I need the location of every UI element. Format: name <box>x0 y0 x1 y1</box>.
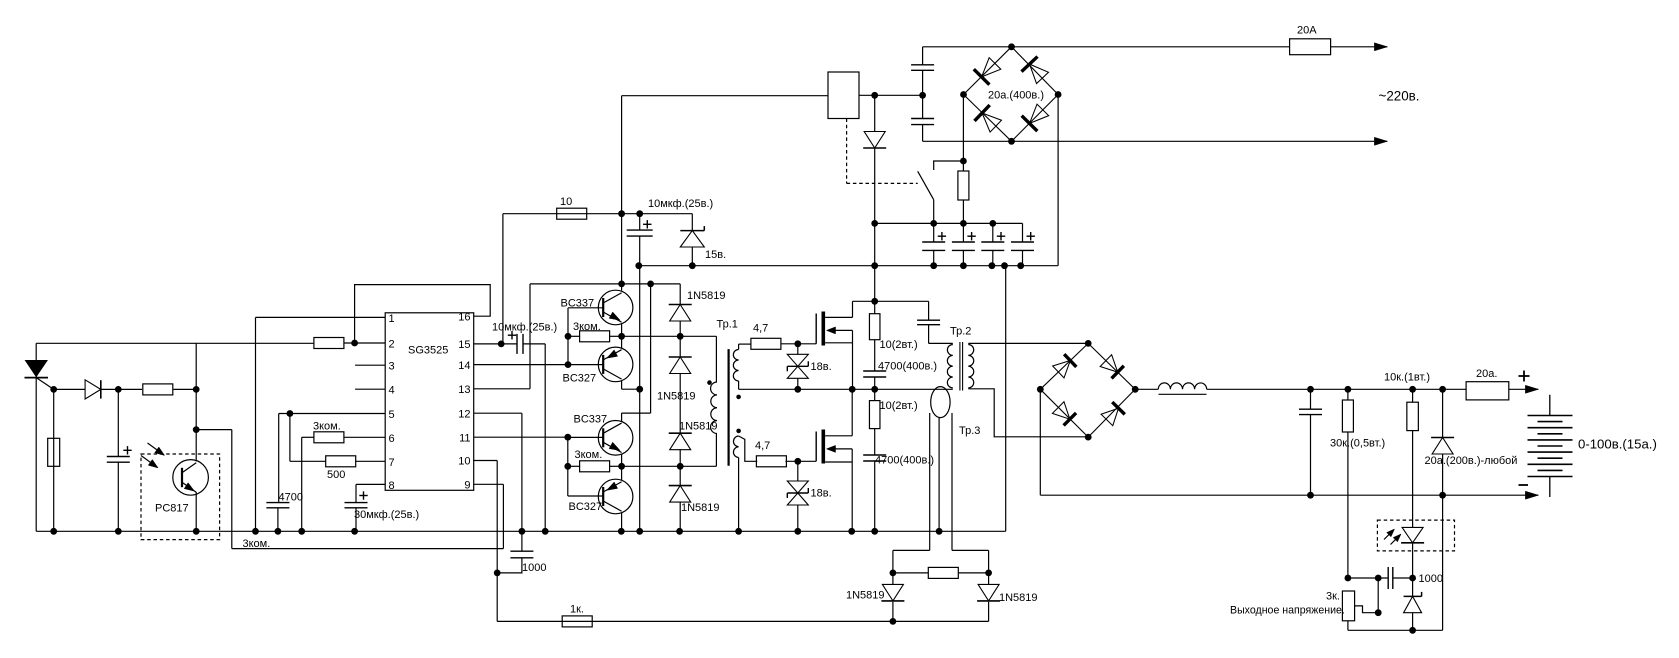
svg-text:Выходное напряжение.: Выходное напряжение. <box>1230 605 1345 617</box>
svg-text:15в.: 15в. <box>705 249 726 261</box>
svg-text:3ком.: 3ком. <box>313 421 341 433</box>
svg-text:Тр.3: Тр.3 <box>959 425 980 437</box>
svg-text:3: 3 <box>389 361 395 373</box>
svg-text:20а.: 20а. <box>1476 368 1497 380</box>
svg-text:4,7: 4,7 <box>755 440 770 452</box>
svg-text:20а.(400в.): 20а.(400в.) <box>988 90 1044 102</box>
svg-text:7: 7 <box>389 457 395 469</box>
svg-text:1000: 1000 <box>522 562 546 574</box>
svg-text:10мкф.(25в.): 10мкф.(25в.) <box>648 198 713 210</box>
svg-text:20A: 20A <box>1297 25 1317 37</box>
svg-text:13: 13 <box>458 384 470 396</box>
svg-text:3ком.: 3ком. <box>575 449 603 461</box>
svg-text:4700(400в.): 4700(400в.) <box>878 361 937 373</box>
svg-text:1N5819: 1N5819 <box>681 502 720 514</box>
svg-text:~220в.: ~220в. <box>1379 88 1420 103</box>
svg-text:Тр.2: Тр.2 <box>950 326 971 338</box>
svg-text:16: 16 <box>458 311 470 323</box>
svg-text:14: 14 <box>458 360 470 372</box>
svg-text:10к.(1вт.): 10к.(1вт.) <box>1384 372 1430 384</box>
svg-text:10мкф.(25в.): 10мкф.(25в.) <box>492 322 557 334</box>
svg-text:4: 4 <box>389 385 395 397</box>
svg-text:5: 5 <box>389 409 395 421</box>
svg-text:10: 10 <box>458 456 470 468</box>
svg-text:BC327: BC327 <box>569 501 603 513</box>
svg-text:10: 10 <box>560 196 572 208</box>
svg-text:12: 12 <box>458 408 470 420</box>
svg-text:9: 9 <box>464 480 470 492</box>
svg-text:6: 6 <box>389 433 395 445</box>
svg-text:10(2вт.): 10(2вт.) <box>880 400 918 412</box>
svg-text:1000: 1000 <box>1419 573 1443 585</box>
svg-text:30к.(0,5вт.): 30к.(0,5вт.) <box>1330 438 1385 450</box>
svg-text:4700: 4700 <box>279 491 303 503</box>
svg-text:1к.: 1к. <box>570 604 584 616</box>
svg-text:10(2вт.): 10(2вт.) <box>880 339 918 351</box>
svg-text:3к.: 3к. <box>1326 591 1340 603</box>
svg-text:18в.: 18в. <box>811 361 832 373</box>
svg-text:30мкф.(25в.): 30мкф.(25в.) <box>354 509 419 521</box>
svg-text:Тр.1: Тр.1 <box>717 319 738 331</box>
svg-text:BC327: BC327 <box>563 373 597 385</box>
svg-text:11: 11 <box>459 432 470 444</box>
svg-text:1N5819: 1N5819 <box>846 589 885 601</box>
svg-text:1: 1 <box>389 313 395 325</box>
svg-text:2: 2 <box>389 339 395 351</box>
svg-text:1N5819: 1N5819 <box>999 592 1038 604</box>
svg-text:BC337: BC337 <box>561 298 595 310</box>
svg-text:8: 8 <box>389 480 395 492</box>
svg-text:SG3525: SG3525 <box>408 345 448 357</box>
svg-text:3ком.: 3ком. <box>243 538 271 550</box>
svg-text:20а.(200в.)-любой: 20а.(200в.)-любой <box>1425 455 1518 467</box>
svg-text:3ком.: 3ком. <box>573 321 601 333</box>
svg-text:1N5819: 1N5819 <box>687 290 726 302</box>
svg-text:18в.: 18в. <box>811 488 832 500</box>
svg-text:4,7: 4,7 <box>753 323 768 335</box>
svg-text:15: 15 <box>458 339 470 351</box>
svg-text:PC817: PC817 <box>155 503 189 515</box>
svg-text:500: 500 <box>327 469 345 481</box>
svg-text:4700(400в.): 4700(400в.) <box>875 455 934 467</box>
svg-text:BC337: BC337 <box>574 413 608 425</box>
svg-text:1N5819: 1N5819 <box>657 391 696 403</box>
svg-text:0-100в.(15а.): 0-100в.(15а.) <box>1578 437 1657 452</box>
